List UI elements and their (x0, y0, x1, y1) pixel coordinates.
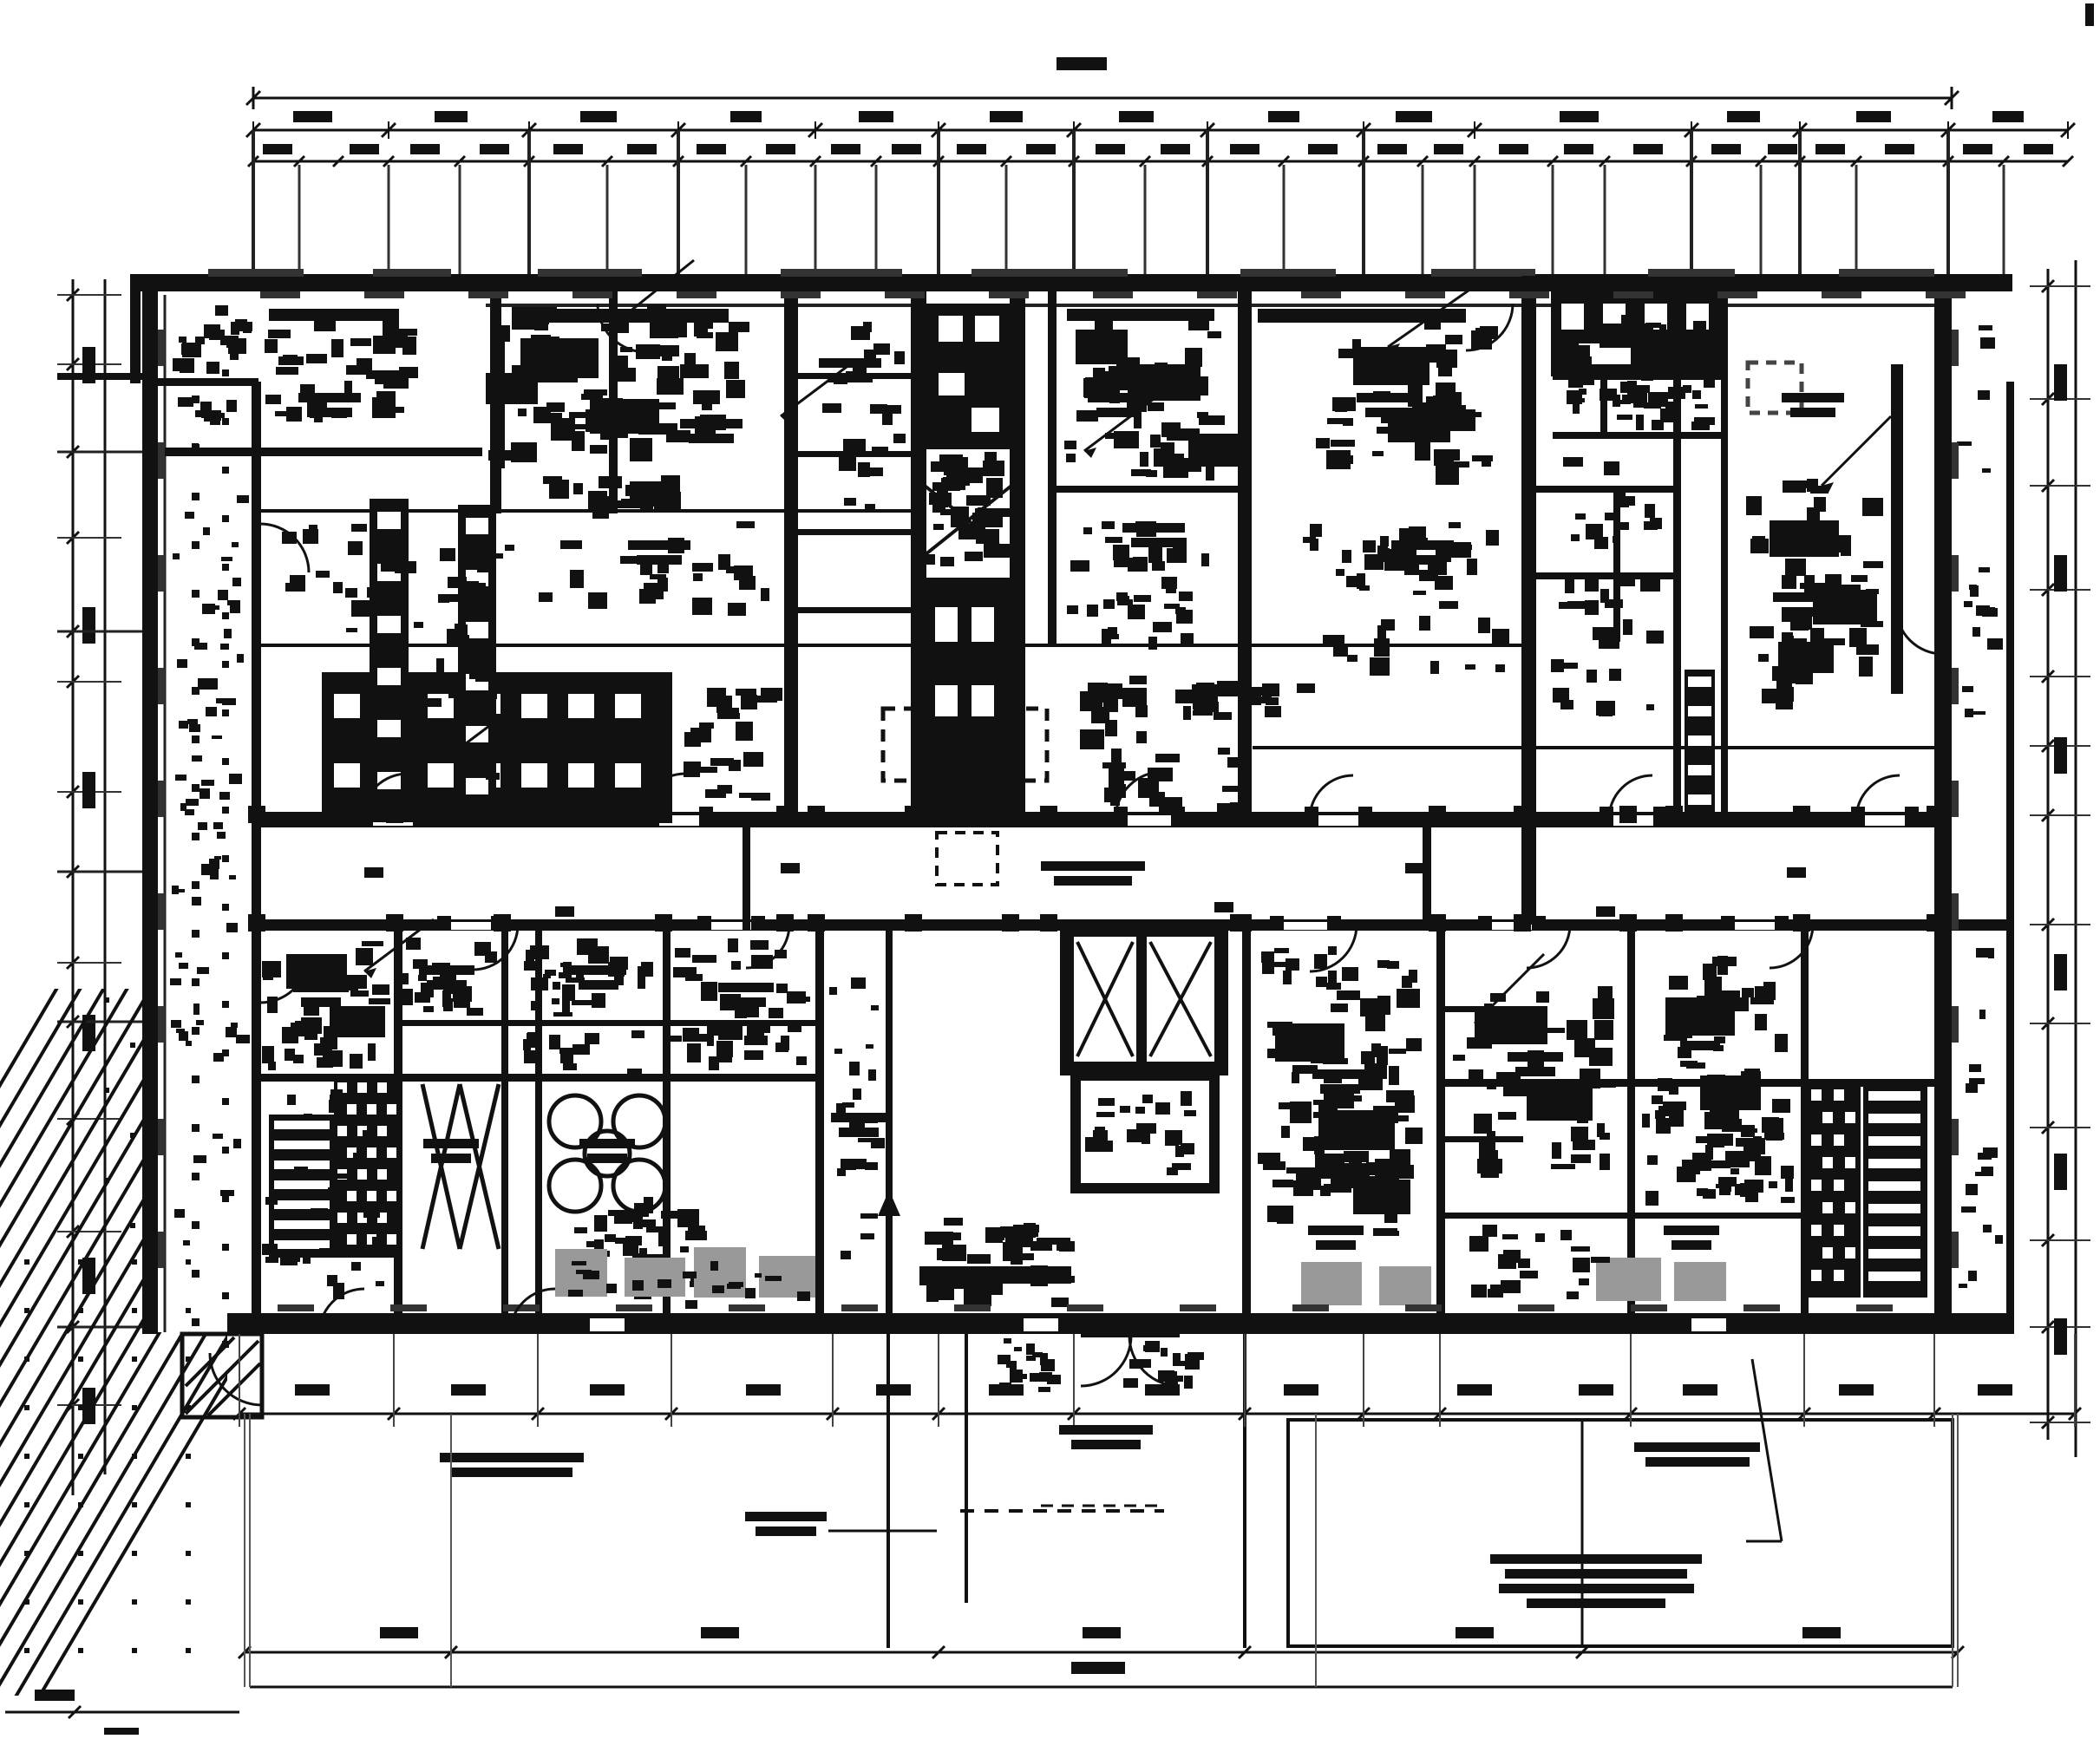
left exterior wall inner skin (164, 295, 167, 1332)
upper corridor top wall (thin) (256, 644, 1535, 647)
top-left wing wall stub (130, 276, 141, 383)
left stoop below bottom wall (182, 1334, 262, 1417)
upper partitions between x1208 and x1429 (1057, 486, 1239, 493)
corner mark top-right (2085, 3, 2094, 26)
wall x1929 top (1673, 290, 1681, 824)
wall x1990 top (1721, 290, 1728, 824)
small rooms column x950 partitions (798, 373, 913, 379)
vestibule entry double door arcs (1081, 1336, 1131, 1386)
locker band east of core (1080, 729, 1104, 749)
bottom dimension line y1945 (250, 1686, 1953, 1689)
wall x620 bottom (535, 930, 542, 1317)
central core mid stair content (943, 477, 963, 482)
right dimension ticks (2042, 280, 2054, 292)
stair block SW stripes (269, 1115, 335, 1258)
bottom dimension line y1905 (245, 1651, 1958, 1654)
counter strip top room A2 (491, 338, 505, 468)
bottom dim text blobs y1600 (295, 1384, 330, 1396)
wall x1429 top (1238, 290, 1252, 814)
main corridor bottom wall (256, 919, 2012, 931)
extra scatter between shelves (458, 563, 475, 569)
sidewalk outline rectangle right (1288, 1420, 1953, 1646)
bottom-left dim text (35, 1690, 75, 1701)
corridor small marks (364, 867, 383, 878)
bottom dim ticks y1905 (239, 1646, 251, 1658)
bottom dimension line y1630 (239, 1413, 2075, 1415)
wall x1208 top (1048, 290, 1057, 645)
stair block SE stripes (1863, 1084, 1927, 1298)
furniture desk room right of core lower (1176, 610, 1193, 624)
locker band extension east (736, 689, 756, 696)
furniture cluster classroom A lower (653, 481, 674, 495)
gray furniture marks accents (683, 1272, 697, 1278)
bottom rooms partition y1242 right (1436, 1079, 1936, 1087)
label middle school demo (1634, 1442, 1760, 1452)
large furniture blobs (dense rooms) (520, 338, 599, 378)
furniture cluster right classroom (1787, 638, 1807, 658)
left dimension text blobs (82, 347, 95, 383)
locker casework band west (322, 672, 672, 822)
top exterior wall (130, 274, 2012, 291)
toilet cluster SW (268, 1062, 276, 1070)
right dimension line outer (2075, 260, 2077, 1457)
furniture cluster room x1880-2080 (1727, 997, 1749, 1011)
top-left corner room marks (204, 324, 220, 338)
extra scatter right of core top (1083, 527, 1092, 534)
column nodes along corridors (248, 806, 265, 823)
window marks left wall (158, 330, 165, 366)
toilet fixtures NE block (1691, 422, 1710, 430)
furniture cluster bottom room 2 (444, 972, 456, 980)
left horizontal extension lines (57, 451, 147, 454)
stair block SE checker (1807, 1084, 1861, 1298)
dimension extension lines (top) (252, 165, 255, 286)
furniture cluster NW office (350, 338, 371, 346)
bottom-left dimension line y1974 (5, 1711, 239, 1714)
top-left wing lower marks (195, 410, 206, 417)
corridor crossing wall x860 (743, 812, 750, 931)
wall x943 bottom (815, 930, 824, 1317)
bench below truss room (690, 1276, 710, 1286)
gray furniture right rooms (1301, 1262, 1362, 1305)
central core left wall (911, 290, 926, 826)
central core right wall (1010, 290, 1025, 826)
window marks right wall (1952, 330, 1959, 366)
left rooms divider line y589 (260, 509, 913, 513)
play room flower pattern (613, 1160, 665, 1212)
left dimension line inner (104, 279, 107, 1474)
window mullion marks top wall (260, 291, 300, 298)
locker band white slots (334, 694, 360, 718)
marks right edge strip upper (1970, 585, 1979, 597)
toilet block NE solid (1551, 291, 1723, 376)
left wing partition wall y516 (144, 448, 482, 456)
bottom exterior wall (227, 1313, 2012, 1334)
bottom dim text y1920 (1071, 1662, 1125, 1674)
label sidewalk demo left (440, 1453, 584, 1462)
label premolded filler left (745, 1512, 827, 1521)
dense block room 1435-1660 center (1387, 1115, 1409, 1121)
skylight dashed square below core (937, 833, 998, 885)
furniture cluster classroom A tables (534, 307, 557, 317)
wall x2080 bottom (1801, 930, 1809, 1317)
elevator core inner divider (1136, 937, 1147, 1062)
extra scatter room 1435-1660 upper (1261, 951, 1274, 963)
extra scatter top right wing (1553, 688, 1569, 703)
leader lines diagonal (annotation) (607, 260, 694, 330)
central core toilet upper content (926, 304, 1010, 449)
door header blobs corridor top (359, 807, 373, 820)
dimension line top tier 3 (253, 160, 2068, 163)
main corridor top heavy wall (256, 812, 1943, 827)
bottom small rooms partition y1180 (394, 1020, 824, 1026)
upper small partitions right wing (1535, 486, 1674, 493)
left dimension ticks (67, 289, 79, 301)
whiteboard dashed right classroom (1748, 363, 1802, 413)
counter strip classroom B top (1258, 309, 1466, 323)
bottom rooms partition y1242 left (256, 1074, 824, 1082)
toilet cluster NE boost (1631, 385, 1650, 393)
stair arrow in lobby (887, 1206, 892, 1284)
bottom dim texts y1880 (380, 1627, 418, 1638)
central core lower dense block (916, 578, 1013, 826)
elevator core lower content (1135, 1107, 1145, 1114)
extra scatter bottom right wing (1682, 1160, 1700, 1174)
overall dimension line (top, 380'-0") (253, 97, 1952, 100)
bottom rooms partition y1400 right (1436, 1213, 1809, 1219)
furniture cluster room x1660-1880 (1482, 1034, 1493, 1042)
counter strip top room A (512, 309, 729, 323)
play room cluster (594, 1239, 604, 1249)
dimension line top tier 2 (253, 129, 2068, 132)
furniture cluster below partition right (1518, 1258, 1530, 1268)
vestibule wall x1114 (965, 1334, 968, 1603)
diagonal hatch band southwest (0, 657, 252, 1739)
right rooms divider line y862 (1253, 746, 1934, 749)
furniture cluster small rooms x950 (846, 371, 859, 376)
vestibule left wall (886, 1334, 890, 1648)
top-left wing horizontal stub (57, 373, 144, 380)
label walkway under canopy (1059, 1425, 1153, 1435)
wall x906 top (784, 290, 798, 814)
extra scatter bottom left rooms (327, 1275, 337, 1286)
wall x565 top (490, 290, 501, 513)
wall x768 bottom (663, 930, 671, 1317)
dots above hatch along wall (104, 997, 109, 1003)
window mullion marks bottom wall (278, 1304, 314, 1311)
furniture cluster bottom room 3 (566, 977, 585, 983)
elevator core lower block (1076, 1075, 1214, 1188)
small room cluster above SE stair (1738, 1184, 1754, 1191)
leader line premolded (828, 1530, 937, 1533)
wall x702 top (609, 290, 618, 513)
central core lower white slits (935, 607, 958, 642)
left dimension line outer (72, 279, 75, 1495)
skylight dashed square left of core (883, 709, 932, 781)
right exterior wall (1934, 276, 1952, 1334)
sidewalk inner vertical line (1581, 1420, 1584, 1646)
corridor label blob center (1041, 861, 1145, 871)
toilet block NE walls (1553, 373, 1722, 380)
wall x1880 bottom (1627, 930, 1635, 1317)
wall x454 bottom (394, 930, 402, 1317)
vestibule right wall (1243, 1334, 1246, 1648)
small rooms column x1660-1760 partitions (bottom) (1445, 1006, 1523, 1012)
label block bottom-right multiline (1490, 1554, 1702, 1564)
left stoop hatch (186, 1341, 258, 1414)
extra scatter top rooms near walls (351, 600, 374, 617)
elevator car X marks (1077, 942, 1133, 1056)
room label blobs (bottom rooms) (293, 983, 349, 992)
skylight dashed square right of core (1005, 709, 1047, 781)
right exterior skin wall (2006, 382, 2014, 1334)
right dimension line inner (2047, 269, 2050, 1440)
top-left wing partition (144, 378, 258, 386)
shelving column A (370, 499, 409, 816)
counter strip room right of core (1067, 309, 1214, 321)
left stoop door arc (210, 1353, 262, 1405)
stair block SW checker (334, 1077, 395, 1258)
right dimension text blobs (2054, 364, 2067, 401)
counter strip NW room (269, 309, 399, 321)
walkway column dots (192, 347, 200, 355)
furniture cluster room right of core (1190, 376, 1208, 396)
top exterior wall inner line (486, 304, 1943, 307)
vertical dim drop lines bottom (244, 1414, 245, 1687)
furniture cluster classroom B lower (1419, 570, 1438, 581)
corridor crossing wall x1645 (1423, 812, 1431, 931)
corridor bottom wall door gaps (451, 922, 491, 930)
furniture marks near corridor right (1214, 712, 1232, 720)
gray furniture row bottom-left rooms (555, 1249, 607, 1297)
corridor top wall door gaps (373, 815, 413, 826)
dot grid in hatch area (24, 1259, 29, 1265)
bottom dim ticks y1630 (233, 1408, 245, 1420)
dimension text blobs tier 2 (293, 111, 332, 122)
extra scatter classroom B mid (1310, 524, 1322, 537)
wall x578 bottom (501, 930, 508, 1317)
bottom-right room boost (1741, 1071, 1761, 1089)
parapet segments on top wall (208, 269, 304, 277)
counter strip right classroom (1891, 364, 1903, 694)
wall x1435 bottom (1242, 930, 1251, 1317)
furniture cluster right of core B (1338, 1170, 1349, 1190)
grid extension lines tall (top) (252, 130, 255, 290)
wall x1024 bottom (886, 930, 893, 1317)
shelving column B (458, 505, 496, 816)
V-truss room lines (422, 1084, 460, 1249)
furniture cluster bottom room 4 (685, 974, 703, 981)
wall x1756 top (1521, 276, 1536, 925)
extra scatter bottom center-left (524, 1050, 541, 1063)
elevator core bottom walls (1067, 930, 1221, 1069)
left exterior wall (142, 276, 158, 1334)
dashed line left of vestibule (1041, 1505, 1157, 1507)
left interior corridor wall (252, 382, 261, 1334)
room label blobs (top rooms) (298, 393, 361, 402)
walkway inner marks (229, 875, 236, 879)
vestibule interior dense block above bottom wall (989, 1276, 1003, 1295)
dimension text blobs tier 3 (263, 144, 292, 154)
leader line sidewalk label (1752, 1359, 1782, 1541)
furniture column bottom center (860, 1233, 874, 1239)
vestibule cluster (1171, 1376, 1183, 1382)
door header blobs corridor bottom (437, 916, 451, 930)
bottom wall white door gaps (590, 1318, 625, 1331)
shaft hatched block right (1685, 670, 1715, 822)
marks right edge strip lower (1995, 1235, 2003, 1244)
furniture marks top-left walkway (220, 644, 229, 650)
vestibule dashed line (960, 1509, 1164, 1513)
furniture cluster classroom B (1439, 392, 1462, 406)
vestibule cluster left (1006, 1361, 1015, 1368)
wall x1660 bottom (1436, 930, 1445, 1317)
door swing arcs (363, 774, 408, 819)
